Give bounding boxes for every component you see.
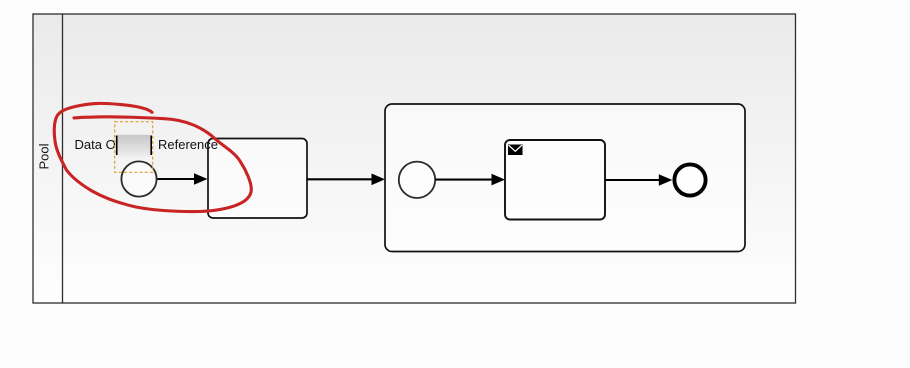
lane divider <box>62 14 64 303</box>
end event <box>674 164 705 195</box>
sequence flow: inner start event to send task T2 <box>435 174 505 186</box>
svg-text:Pool: Pool <box>37 143 52 169</box>
start event (inside subprocess) <box>399 162 435 198</box>
sequence flow: task T1 to subprocess <box>307 174 385 186</box>
red annotation (hand-drawn ellipse) <box>54 103 251 211</box>
sequence flow: start event to task T1 <box>157 173 208 185</box>
task T1 <box>208 139 307 219</box>
sequence flow: send task T2 to end event <box>605 174 672 186</box>
selection outline (orange dashed) <box>115 122 153 173</box>
svg-text:Data O: Data O <box>75 137 116 152</box>
svg-text:Reference: Reference <box>158 137 218 152</box>
subprocess (expanded) <box>385 104 745 252</box>
clipped letter stem (left bar) <box>116 136 118 156</box>
clipped letter stem (right bar) <box>150 136 152 156</box>
pool Pool <box>33 14 796 303</box>
send task message icon (envelope) <box>508 145 523 156</box>
send task T2 <box>505 140 605 220</box>
start event (pool level) <box>121 161 156 196</box>
data object shape (gradient box) <box>118 135 150 158</box>
